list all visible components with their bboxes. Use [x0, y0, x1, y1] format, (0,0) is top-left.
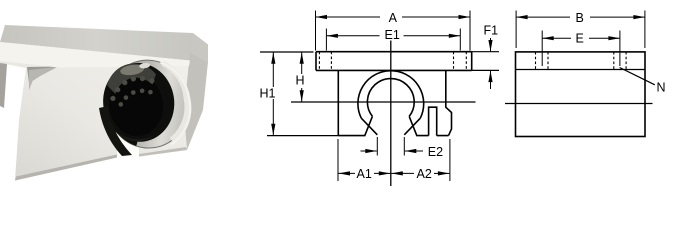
photo gusset shadow — [29, 67, 56, 90]
dim A1 A2 extension lines — [337, 139, 339, 181]
svg-text:A: A — [389, 11, 398, 25]
svg-text:A2: A2 — [417, 167, 432, 181]
dim E2 extension lines — [376, 137, 378, 156]
front view slot wall left S2 — [365, 116, 373, 135]
photo right end face — [184, 52, 208, 150]
front view body right edge with bump — [446, 70, 452, 135]
leader N — [620, 68, 655, 85]
photo right ear — [190, 33, 208, 62]
photo bore bottom inner shade — [108, 117, 155, 145]
photo bearing highlight top — [120, 63, 145, 76]
photo front face silhouette — [0, 42, 190, 181]
photo ring bottom-left dark sector — [109, 104, 153, 149]
front view outer bore arc — [358, 71, 424, 118]
dim E1 line — [326, 35, 379, 37]
photo ring bright band — [161, 61, 192, 140]
H1 bottom reference line — [267, 135, 338, 137]
front view top plate outline — [316, 52, 472, 71]
photo ring outer edge line — [101, 55, 195, 154]
dim H1 arrows — [272, 52, 274, 87]
photo left edge streak — [0, 63, 7, 108]
photo bottom slot gap — [117, 126, 139, 158]
photo bearing glint — [139, 62, 151, 69]
dim E1 extension lines — [325, 29, 327, 51]
dim F1 up arrow — [490, 71, 492, 89]
front view bolt holes dashed — [319, 52, 466, 71]
svg-text:H1: H1 — [260, 86, 276, 100]
svg-text:E: E — [576, 32, 584, 46]
side view shoulder line — [516, 69, 646, 71]
dim B line — [516, 16, 570, 18]
photo foot bottom edge shade — [15, 155, 117, 181]
photo bore dark — [98, 58, 179, 146]
front view horizontal centerline — [291, 101, 476, 103]
front view shoulder line full — [338, 69, 471, 71]
dim E extension lines — [541, 31, 543, 67]
side view mounting holes dashed — [536, 52, 627, 70]
dim A2 line — [391, 172, 414, 174]
H1 top reference line — [260, 51, 314, 53]
dim F1 shoulder extension — [472, 69, 499, 71]
front view flare chamfer left S1 — [361, 118, 377, 135]
dim F1 down arrow — [490, 38, 492, 52]
svg-text:E2: E2 — [428, 145, 443, 159]
side view centerline — [505, 103, 653, 105]
front view bottom edge left foot — [338, 135, 365, 137]
photo ball row dots — [108, 73, 158, 108]
svg-text:A1: A1 — [357, 167, 372, 181]
dim B extension lines — [515, 11, 517, 49]
dim H arrows — [301, 52, 303, 74]
front view flare chamfer right S1 — [404, 118, 420, 135]
photo plate front band — [0, 42, 190, 68]
dim A line — [316, 16, 381, 18]
dim E line — [542, 37, 571, 39]
front view clamp slit — [429, 107, 437, 135]
photo bearing metallic ring — [101, 55, 195, 154]
photo top face — [0, 25, 193, 61]
dim E2 arrows — [361, 150, 377, 152]
svg-text:N: N — [657, 80, 666, 94]
svg-text:E1: E1 — [385, 28, 400, 42]
front view body left edge — [337, 70, 339, 135]
photo ring highlight — [159, 59, 195, 145]
front view vertical centerline — [390, 41, 392, 187]
front view bottom edge right foot — [416, 135, 448, 137]
photo under-plate shadow — [27, 67, 58, 84]
svg-text:H: H — [296, 73, 305, 87]
dim A1 line — [339, 172, 356, 174]
side view rectangle — [516, 52, 646, 137]
front view shoulder line left — [316, 69, 338, 71]
photo bearing inner — [105, 71, 167, 140]
svg-text:F1: F1 — [484, 24, 499, 38]
front view inner bore arc — [367, 79, 414, 117]
dim F1 top surface extension — [472, 51, 499, 53]
dim A extension lines — [315, 11, 317, 51]
svg-text:B: B — [576, 11, 584, 25]
front view slot wall right S2 — [409, 116, 417, 135]
photo slot shadow wedge — [99, 106, 132, 156]
photo bearing top reflection — [105, 60, 158, 95]
